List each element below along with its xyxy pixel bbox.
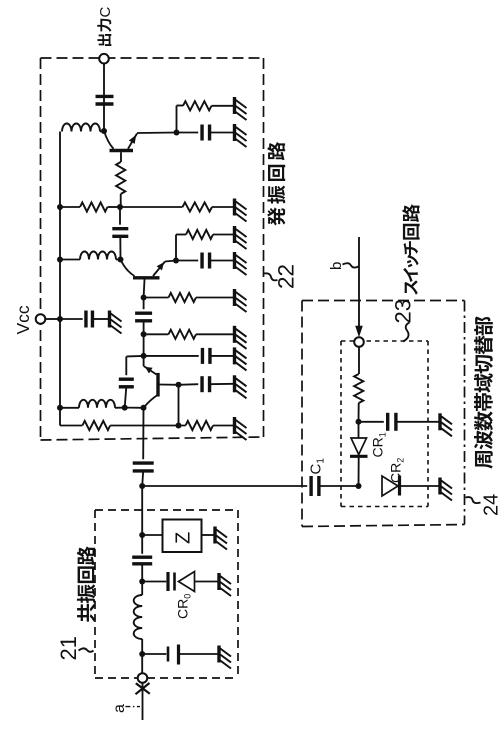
svg-text:23: 23 bbox=[391, 299, 416, 323]
svg-text:CR2: CR2 bbox=[388, 458, 406, 483]
svg-text:CR1: CR1 bbox=[370, 432, 388, 457]
svg-text:C: C bbox=[97, 7, 114, 18]
svg-text:CR0: CR0 bbox=[175, 594, 193, 619]
svg-text:22: 22 bbox=[274, 264, 299, 289]
svg-text:C1: C1 bbox=[308, 458, 327, 475]
svg-text:Z: Z bbox=[173, 532, 195, 544]
svg-text:b: b bbox=[328, 262, 345, 270]
svg-text:24: 24 bbox=[481, 494, 503, 516]
svg-text:Vcc: Vcc bbox=[13, 305, 33, 334]
svg-text:a: a bbox=[111, 704, 128, 713]
svg-text:21: 21 bbox=[56, 636, 81, 660]
